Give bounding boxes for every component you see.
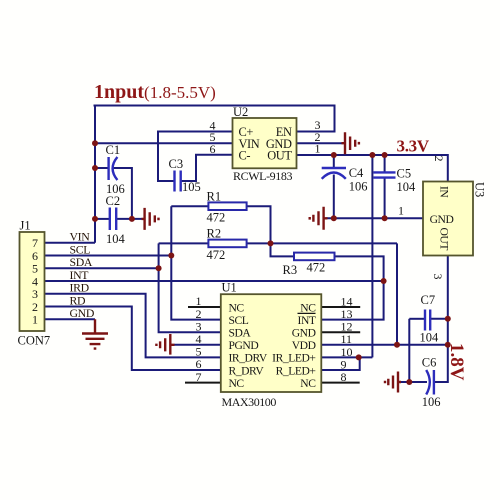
wire U1 pin4 PGND to ground — [174, 344, 221, 346]
node pullup-R1R2 — [268, 240, 274, 246]
capacitor C2 — [110, 208, 116, 231]
svg-text:IR_LED+: IR_LED+ — [272, 352, 315, 365]
wire INT row — [45, 280, 384, 282]
node SCL — [168, 253, 174, 259]
wire 3.3V rail — [297, 155, 448, 182]
resistor R1 — [208, 202, 246, 210]
svg-text:104: 104 — [397, 180, 417, 194]
node C7-U3OUT — [445, 316, 451, 322]
svg-text:R1: R1 — [207, 190, 222, 204]
resistor R2 — [208, 240, 246, 248]
ground C6 — [385, 372, 401, 393]
svg-text:105: 105 — [182, 180, 201, 194]
node input-C1 — [92, 165, 98, 171]
wire C5 top stem — [384, 155, 386, 172]
wire SDA row — [45, 267, 159, 269]
capacitor C4 — [322, 168, 346, 179]
wire C7 row left — [409, 318, 424, 320]
wire VIN row — [45, 242, 96, 244]
svg-text:RCWL-9183: RCWL-9183 — [233, 169, 292, 183]
ground J1 — [82, 319, 108, 348]
INT overline — [298, 312, 316, 314]
wire R2 left — [159, 242, 209, 244]
wire C1 row right + drop — [113, 168, 132, 219]
svg-text:J1: J1 — [20, 219, 31, 233]
svg-text:R3: R3 — [283, 263, 298, 277]
svg-text:NC: NC — [300, 301, 316, 314]
node GND-C4 — [331, 215, 337, 221]
wire C2 row right to ground — [116, 218, 142, 220]
wire pullup rail riser — [396, 243, 398, 344]
svg-text:472: 472 — [307, 261, 326, 275]
wire SCL row — [45, 255, 172, 257]
svg-text:C6: C6 — [422, 356, 437, 370]
svg-text:IR_DRV: IR_DRV — [229, 352, 268, 365]
wire U2 pin5 VIN row — [95, 142, 233, 144]
svg-text:U3: U3 — [473, 182, 487, 197]
node GND-C5 — [382, 215, 388, 221]
svg-text:GND: GND — [292, 327, 316, 340]
node 3V3-C4 — [331, 152, 337, 158]
capacitor C7 — [425, 310, 430, 331]
wire U2 pin6 C- to C3 — [181, 155, 233, 181]
svg-text:OUT: OUT — [438, 228, 451, 251]
node INT-R3 — [381, 278, 387, 284]
wire U1 pin7 NC stub — [185, 382, 221, 384]
node LED-pins — [356, 354, 362, 360]
svg-text:R_LED+: R_LED+ — [276, 364, 316, 377]
svg-text:106: 106 — [349, 180, 368, 194]
wire input rail top — [94, 106, 335, 132]
svg-text:472: 472 — [207, 211, 226, 225]
capacitor C5 — [374, 172, 396, 177]
wire SDA vertical to U1 pin3 — [159, 243, 221, 332]
wire C7-C6 vertical — [408, 319, 410, 382]
svg-text:R_DRV: R_DRV — [229, 364, 265, 377]
svg-text:2: 2 — [432, 156, 446, 162]
svg-text:GND: GND — [430, 213, 454, 226]
node input-C2 — [92, 216, 98, 222]
node input-VIN — [92, 140, 98, 146]
ground C2 — [142, 208, 159, 230]
node C6-C7 — [406, 379, 412, 385]
wire R1 left — [171, 205, 208, 207]
svg-text:SDA: SDA — [229, 327, 252, 340]
wire C1 row left — [95, 167, 109, 169]
svg-text:3: 3 — [431, 274, 445, 280]
svg-text:8: 8 — [341, 370, 347, 384]
svg-text:GND: GND — [70, 306, 95, 320]
svg-text:C5: C5 — [397, 167, 412, 181]
svg-text:SCL: SCL — [229, 314, 249, 327]
svg-text:NC: NC — [229, 301, 245, 314]
wire C4 top stem — [333, 155, 335, 168]
svg-text:7: 7 — [196, 370, 202, 384]
op-amp U3 1.8V regulator — [423, 182, 473, 256]
wire R2 right to rail — [247, 242, 397, 244]
wire U3 pin3 OUT vertical — [435, 256, 448, 383]
wire U1 pin12 GND stub — [322, 331, 361, 333]
resistor R3 — [294, 253, 335, 261]
svg-text:NC: NC — [229, 377, 245, 390]
svg-text:IN: IN — [438, 186, 451, 198]
svg-text:C4: C4 — [349, 166, 364, 180]
svg-text:U2: U2 — [233, 105, 248, 119]
svg-text:6: 6 — [210, 142, 216, 156]
wire U1 pin14 NC stub — [322, 306, 361, 308]
node SDA — [156, 265, 162, 271]
wire C5 bottom stem — [384, 179, 386, 219]
svg-text:1nput(1.8-5.5V): 1nput(1.8-5.5V) — [94, 81, 216, 103]
svg-text:R2: R2 — [207, 227, 222, 241]
wire IRD to U1 pin5 — [45, 294, 221, 358]
svg-text:1: 1 — [398, 203, 404, 217]
svg-text:C2: C2 — [106, 194, 121, 208]
op-amp U2 RCWL-9183 regulator — [233, 118, 297, 168]
node C1-C2 — [129, 216, 135, 222]
svg-text:CON7: CON7 — [18, 334, 51, 348]
wire R1 right — [247, 206, 271, 243]
wire U2 pin4 C+ to C3 — [158, 132, 233, 182]
capacitor C3 — [175, 171, 181, 192]
connector J1 — [20, 232, 45, 331]
wire input vertical — [94, 106, 96, 243]
wire C2 row left — [95, 218, 110, 220]
wire GND J1 — [45, 318, 96, 320]
svg-text:VDD: VDD — [292, 339, 316, 352]
wire RD to U1 pin6 — [45, 307, 221, 370]
svg-text:U1: U1 — [222, 281, 237, 295]
wire C7 row right — [431, 318, 448, 320]
svg-text:472: 472 — [207, 248, 226, 262]
svg-text:NC: NC — [300, 377, 316, 390]
wire C6 row left to ground — [400, 381, 427, 383]
svg-text:1: 1 — [315, 142, 321, 156]
node 3V3-riser — [369, 152, 375, 158]
wire VDD 1.8V row — [322, 344, 448, 346]
wire R3 left link — [271, 243, 295, 256]
wire U1 pin1 NC stub — [188, 306, 221, 308]
svg-text:C3: C3 — [169, 157, 184, 171]
wire SCL vertical to U1 pin2 — [171, 206, 221, 319]
node 3V3-C5 — [382, 152, 388, 158]
wire U2 pin2 GND to ground — [297, 142, 343, 144]
svg-text:OUT: OUT — [267, 149, 292, 163]
svg-text:C1: C1 — [106, 143, 121, 157]
ground 3.3V GND row — [310, 207, 328, 230]
svg-text:INT: INT — [298, 314, 316, 327]
wire U1 pin10 IR_LED+ row — [322, 356, 373, 358]
op-amp U1 MAX30100 sensor — [221, 294, 321, 392]
svg-text:104: 104 — [106, 232, 126, 246]
capacitor C6 — [426, 370, 434, 395]
svg-text:PGND: PGND — [229, 339, 259, 352]
wire GND row — [327, 217, 424, 219]
wire C4 bottom stem — [333, 175, 335, 219]
svg-text:1.8V: 1.8V — [446, 343, 467, 381]
svg-text:106: 106 — [422, 395, 441, 409]
svg-text:3.3V: 3.3V — [397, 137, 430, 156]
wire R3 right to INT/pin13 — [322, 256, 384, 319]
svg-text:C7: C7 — [421, 293, 436, 307]
svg-text:1: 1 — [32, 313, 38, 327]
ground U2 GND — [342, 132, 359, 154]
wire U1 pin9 R_LED+ riser — [322, 357, 360, 370]
svg-text:C-: C- — [239, 149, 251, 163]
wire 3.3V riser to LED pins — [371, 155, 373, 357]
svg-text:MAX30100: MAX30100 — [222, 395, 277, 409]
node VDD-U3OUT — [445, 342, 451, 348]
node VDD-rail — [394, 342, 400, 348]
ground U1 PGND — [156, 334, 174, 355]
wire U1 pin8 NC stub — [322, 382, 360, 384]
svg-text:104: 104 — [420, 331, 440, 345]
capacitor C1 — [109, 157, 118, 180]
